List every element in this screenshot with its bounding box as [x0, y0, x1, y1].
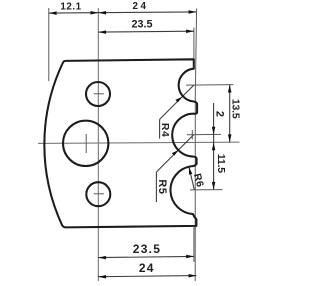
wire extension line right 23.5-edge top — [193, 28, 195, 60]
svg-text:24: 24 — [132, 1, 148, 12]
svg-text:R5: R5 — [156, 179, 168, 194]
svg-text:R4: R4 — [159, 123, 170, 138]
wire extension line right 23.5-edge bottom — [193, 227, 195, 262]
leader R4 — [160, 85, 194, 119]
svg-text:2: 2 — [213, 111, 225, 117]
leader R6 — [189, 167, 194, 190]
node centerline vertical (hole axis) — [97, 8, 99, 281]
wire extension line left (12.1) — [48, 8, 50, 81]
node R5 centerline / 2-dim upper extension — [187, 133, 221, 135]
node centerline horizontal (part midline) — [38, 142, 240, 143]
svg-text:13.5: 13.5 — [230, 99, 242, 119]
dimension line 23.5 top — [98, 30, 194, 33]
svg-text:11.5: 11.5 — [215, 154, 227, 173]
leader R5 — [156, 135, 193, 172]
dimension line 24 bottom — [98, 276, 196, 277]
wire extension line right 24-edge full — [195, 9, 196, 282]
node R6 centerline — [190, 189, 223, 191]
dimension line 23.5 bottom — [98, 256, 194, 257]
svg-text:12.1: 12.1 — [60, 2, 81, 13]
node R4 centerline — [186, 84, 233, 87]
hole bottom small — [86, 182, 110, 206]
dimension line 2 + 11.5 shared vertical — [213, 103, 215, 190]
part outline (profile knife blank) — [44, 59, 197, 227]
svg-text:24: 24 — [139, 261, 155, 275]
dimension line 13.5 (R4 center to midline) — [229, 85, 231, 143]
dimension line 12.1/24 top — [49, 12, 197, 13]
svg-text:23.5: 23.5 — [133, 242, 162, 256]
hole top small — [86, 82, 110, 106]
hole center big — [63, 121, 108, 166]
svg-text:23.5: 23.5 — [131, 19, 152, 31]
